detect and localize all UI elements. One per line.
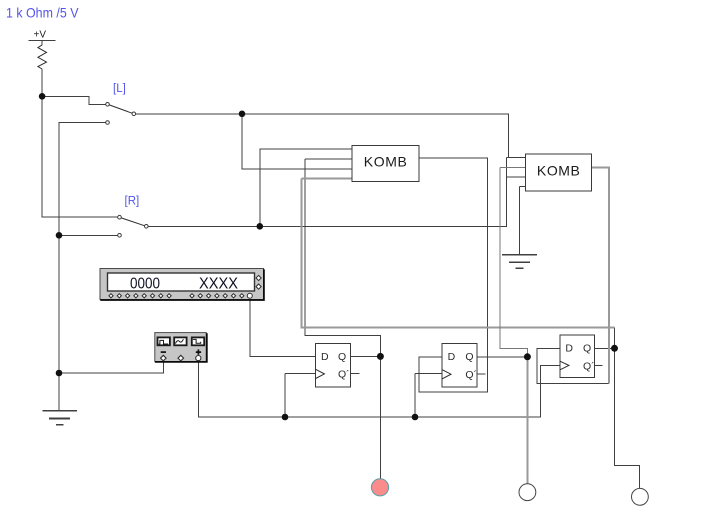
svg-text:Q´: Q´ — [465, 369, 477, 381]
svg-text:KOMB: KOMB — [537, 163, 580, 179]
svg-text:Q´: Q´ — [338, 368, 350, 380]
svg-text:0000: 0000 — [130, 275, 160, 292]
svg-text:Q: Q — [338, 351, 346, 363]
svg-text:[L]: [L] — [113, 83, 126, 95]
svg-text:KOMB: KOMB — [364, 154, 407, 170]
svg-text:+V: +V — [34, 30, 47, 41]
svg-text:Q: Q — [465, 351, 473, 363]
svg-text:XXXX: XXXX — [199, 275, 238, 292]
svg-text:D: D — [321, 351, 329, 363]
svg-text:1 k Ohm /5 V: 1 k Ohm /5 V — [6, 5, 79, 21]
svg-text:D: D — [565, 343, 573, 355]
svg-text:[R]: [R] — [125, 196, 140, 208]
svg-text:Q´: Q´ — [583, 360, 595, 372]
svg-text:D: D — [448, 351, 456, 363]
svg-text:Q: Q — [583, 343, 591, 355]
